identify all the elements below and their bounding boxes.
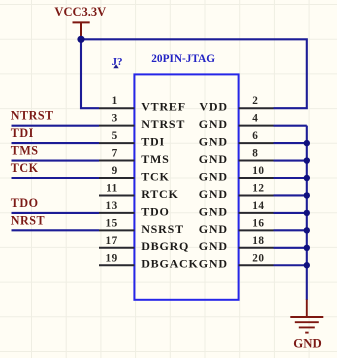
svg-text:2: 2 xyxy=(252,95,258,107)
pin 4 GND xyxy=(199,113,274,131)
wire VCC horizontal to pin 2 xyxy=(81,39,307,108)
svg-text:DBGACK: DBGACK xyxy=(141,257,198,271)
svg-text:20PIN-JTAG: 20PIN-JTAG xyxy=(151,53,215,65)
junction pin10 xyxy=(304,175,310,181)
svg-text:3: 3 xyxy=(112,113,118,125)
svg-text:12: 12 xyxy=(252,182,264,194)
origin cross xyxy=(113,64,118,68)
pin 6 GND xyxy=(199,130,274,148)
pin 15 NSRST xyxy=(99,217,184,235)
svg-text:5: 5 xyxy=(112,130,118,142)
svg-text:NRST: NRST xyxy=(11,213,45,227)
svg-text:GND: GND xyxy=(199,257,228,271)
junction pin16 xyxy=(304,227,310,233)
pin 13 TDO xyxy=(99,200,170,218)
svg-text:TCK: TCK xyxy=(11,161,39,175)
svg-text:10: 10 xyxy=(252,165,264,177)
pin 14 GND xyxy=(199,200,274,218)
wire pin6 to bus xyxy=(274,142,307,144)
svg-text:GND: GND xyxy=(199,152,228,166)
svg-text:GND: GND xyxy=(293,336,321,350)
svg-text:GND: GND xyxy=(199,239,228,253)
net label NRST xyxy=(11,213,99,230)
svg-text:TMS: TMS xyxy=(141,152,169,166)
net label TDI xyxy=(11,126,99,143)
wire pin20 to bus xyxy=(274,264,307,266)
svg-text:16: 16 xyxy=(252,217,264,229)
wire pin4 to bus xyxy=(274,125,307,127)
wire pin12 to bus xyxy=(274,194,307,196)
svg-text:TDI: TDI xyxy=(141,135,165,149)
svg-text:NTRST: NTRST xyxy=(141,117,185,131)
pin 2 VDD xyxy=(199,95,273,113)
pin 1 VTREF xyxy=(99,95,186,113)
svg-text:GND: GND xyxy=(199,222,228,236)
svg-text:9: 9 xyxy=(112,165,118,177)
pin 19 DBGACK xyxy=(99,252,199,270)
pin 17 DBGRQ xyxy=(99,235,189,253)
wire GND bus vertical xyxy=(306,126,308,300)
junction VCC xyxy=(77,36,84,43)
pin 5 TDI xyxy=(99,130,165,148)
pin 8 GND xyxy=(199,148,274,166)
svg-text:20: 20 xyxy=(252,252,264,264)
pin 11 RTCK xyxy=(99,182,179,200)
wire pin18 to bus xyxy=(274,247,307,249)
net label TDO xyxy=(11,196,99,213)
wire pin10 to bus xyxy=(274,177,307,179)
junction pin6 xyxy=(304,140,310,146)
pin 20 GND xyxy=(199,252,274,270)
svg-text:1: 1 xyxy=(112,95,118,107)
pin 7 TMS xyxy=(99,148,170,166)
net label TMS xyxy=(11,144,99,161)
junction pin12 xyxy=(304,192,310,198)
pin 16 GND xyxy=(199,217,274,235)
svg-text:DBGRQ: DBGRQ xyxy=(141,239,189,253)
wire pin14 to bus xyxy=(274,212,307,214)
svg-text:18: 18 xyxy=(252,235,264,247)
svg-text:TMS: TMS xyxy=(11,144,39,158)
junction pin14 xyxy=(304,210,310,216)
svg-text:TCK: TCK xyxy=(141,169,169,183)
pin 10 GND xyxy=(199,165,274,183)
svg-text:RTCK: RTCK xyxy=(141,187,178,201)
svg-text:TDI: TDI xyxy=(11,126,34,140)
connector U J? 20PIN-JTAG body xyxy=(134,74,238,299)
svg-text:GND: GND xyxy=(199,135,228,149)
svg-text:TDO: TDO xyxy=(11,196,39,210)
power port GND xyxy=(290,300,323,351)
svg-text:7: 7 xyxy=(112,148,118,160)
pin 9 TCK xyxy=(99,165,170,183)
svg-text:NTRST: NTRST xyxy=(11,109,54,123)
svg-text:8: 8 xyxy=(252,148,258,160)
svg-text:11: 11 xyxy=(106,182,118,194)
svg-text:VDD: VDD xyxy=(199,100,227,114)
svg-text:19: 19 xyxy=(106,252,118,264)
wire pin16 to bus xyxy=(274,229,307,231)
wire VCC vertical to pin 1 xyxy=(81,39,99,108)
junction pin20 xyxy=(304,262,310,268)
junction pin8 xyxy=(304,157,310,163)
svg-text:GND: GND xyxy=(199,204,228,218)
svg-text:GND: GND xyxy=(199,187,228,201)
pin 18 GND xyxy=(199,235,274,253)
svg-text:VTREF: VTREF xyxy=(141,100,186,114)
svg-text:NSRST: NSRST xyxy=(141,222,184,236)
svg-text:VCC3.3V: VCC3.3V xyxy=(54,5,106,19)
svg-text:TDO: TDO xyxy=(141,204,169,218)
net label TCK xyxy=(11,161,99,178)
svg-text:GND: GND xyxy=(199,169,228,183)
svg-text:6: 6 xyxy=(252,130,258,142)
svg-text:17: 17 xyxy=(106,235,118,247)
svg-text:15: 15 xyxy=(106,217,118,229)
pin 3 NTRST xyxy=(99,113,185,131)
power port VCC3.3V xyxy=(54,5,106,37)
junction pin18 xyxy=(304,245,310,251)
svg-text:4: 4 xyxy=(252,113,258,125)
net label NTRST xyxy=(11,109,99,126)
pin 12 GND xyxy=(199,182,274,200)
wire pin8 to bus xyxy=(274,160,307,162)
svg-text:13: 13 xyxy=(106,200,118,212)
svg-text:GND: GND xyxy=(199,117,228,131)
svg-text:14: 14 xyxy=(252,200,264,212)
